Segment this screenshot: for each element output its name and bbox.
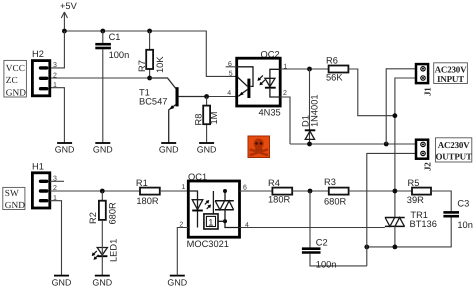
svg-text:R3: R3 <box>324 177 336 187</box>
H2 signal label box VCC/ZC/GND <box>4 60 27 98</box>
wire H1 pin1 to GND <box>50 201 62 276</box>
photo-triac inside OC1 <box>213 191 225 214</box>
svg-text:VCC: VCC <box>6 64 25 74</box>
svg-text:1N4001: 1N4001 <box>310 94 320 127</box>
wire R3 to R5 <box>349 190 412 192</box>
warning icon (high voltage skull) <box>248 136 270 158</box>
svg-text:6: 6 <box>243 184 247 191</box>
wire AC net to J2 pin1 <box>290 143 416 145</box>
LED inside OC1 <box>188 191 197 210</box>
resistor R2 <box>88 191 117 225</box>
capacitor C1 <box>95 31 129 143</box>
svg-text:GND: GND <box>52 277 72 287</box>
wire R5 to C3 <box>431 191 451 211</box>
AC230V INPUT label box <box>434 63 468 84</box>
svg-text:GND: GND <box>6 88 26 98</box>
node rail-R7 junction <box>147 29 152 34</box>
phototransistor inside OC2 <box>237 67 253 87</box>
resistor R8 <box>194 97 220 144</box>
svg-text:J2: J2 <box>423 162 433 171</box>
svg-text:100n: 100n <box>316 260 337 270</box>
svg-text:GND: GND <box>159 145 179 155</box>
wire H2 pin3 to +5V <box>51 31 64 68</box>
svg-text:6: 6 <box>228 61 232 68</box>
svg-text:GND: GND <box>167 277 187 287</box>
svg-text:MOC3021: MOC3021 <box>187 239 229 249</box>
svg-text:4N35: 4N35 <box>259 108 281 118</box>
LED inside OC2 <box>270 69 280 87</box>
node rail-H2 junction <box>62 29 67 34</box>
svg-text:39R: 39R <box>407 195 424 205</box>
svg-text:R7: R7 <box>137 60 147 72</box>
svg-text:5: 5 <box>229 70 233 77</box>
light bolt inside OC1 <box>205 201 210 209</box>
capacitor C3 <box>367 199 473 247</box>
svg-text:R6: R6 <box>326 56 338 66</box>
ground (T1 emitter) <box>159 143 179 155</box>
resistor R7 <box>137 31 165 78</box>
svg-text:C1: C1 <box>109 32 121 42</box>
LED LED1 <box>92 220 119 276</box>
node T1 collector junction <box>147 76 152 81</box>
ground (H1 pin1) <box>52 276 72 288</box>
svg-text:C2: C2 <box>316 238 328 248</box>
svg-text:680R: 680R <box>324 196 347 206</box>
wire R4 to R3 <box>292 190 329 192</box>
svg-text:10n: 10n <box>457 220 473 230</box>
AC230V OUTPUT label box <box>435 138 472 162</box>
resistor R6 <box>326 56 348 83</box>
svg-text:1M: 1M <box>209 112 219 125</box>
svg-text:GND: GND <box>197 145 217 155</box>
ground (C1) <box>93 143 113 155</box>
svg-text:1: 1 <box>53 82 57 89</box>
wire H1 pin2 to R1 <box>50 190 140 192</box>
node R2 top junction <box>100 189 105 194</box>
svg-text:1: 1 <box>182 184 186 191</box>
transistor T1 BC547 <box>139 78 207 143</box>
svg-text:ZC: ZC <box>6 76 18 86</box>
triac TR1 BT136 <box>385 210 437 247</box>
svg-text:R2: R2 <box>88 212 98 224</box>
wire H2 pin1 to GND <box>51 88 64 143</box>
svg-text:2: 2 <box>53 72 57 79</box>
svg-text:10K: 10K <box>155 56 165 73</box>
node C2 top junction <box>308 189 313 194</box>
light arrows inside OC2 <box>259 75 265 83</box>
svg-text:2: 2 <box>283 90 287 97</box>
pin 6 stub (base, n.c.) <box>226 66 237 68</box>
svg-text:R1: R1 <box>136 178 148 188</box>
optocoupler OC1 MOC3021 <box>179 172 249 249</box>
svg-text:BT136: BT136 <box>410 219 437 229</box>
resistor R5 <box>407 178 431 205</box>
ground (H2 pin1) <box>55 143 75 155</box>
svg-text:BC547: BC547 <box>139 97 167 107</box>
wire J1 pin1 drop <box>386 69 415 144</box>
ground (OC1 pin2) <box>167 276 187 288</box>
+5V supply symbol <box>60 1 78 31</box>
node D1 cathode junction <box>307 142 312 147</box>
svg-text:3: 3 <box>53 62 57 69</box>
connector J1 <box>416 64 433 96</box>
connector H2 <box>32 49 57 96</box>
svg-text:SW: SW <box>5 189 19 199</box>
svg-text:180R: 180R <box>268 194 291 204</box>
svg-text:GND: GND <box>92 277 112 287</box>
gate element box "1" inside OC1 <box>204 214 218 229</box>
H1 signal label box SW/GND <box>3 187 25 210</box>
svg-text:GND: GND <box>5 201 25 211</box>
node R6 net / J1 pin2 junction <box>393 113 398 118</box>
wire +5V rail <box>64 31 236 76</box>
svg-text:OUTPUT: OUTPUT <box>435 152 472 162</box>
node R8 top junction <box>204 94 209 99</box>
diode D1 1N4001 <box>301 69 320 144</box>
wire ZC: H2 pin2 to T1 collector node <box>51 77 150 79</box>
svg-text:180R: 180R <box>136 196 159 206</box>
svg-text:4: 4 <box>227 90 231 97</box>
svg-text:R4: R4 <box>268 178 280 188</box>
wire J2 pin2 to snubber/C2 net <box>367 153 416 266</box>
svg-text:J1: J1 <box>423 87 433 96</box>
svg-text:1: 1 <box>208 217 213 227</box>
svg-text:+5V: +5V <box>60 1 78 11</box>
resistor R4 <box>268 178 292 204</box>
ground (R8) <box>197 143 217 155</box>
wire OC1 pin6 to R4 <box>240 190 273 192</box>
connector H1 <box>32 162 57 209</box>
node D1 anode junction <box>307 67 312 72</box>
svg-text:AC230V: AC230V <box>438 140 470 150</box>
svg-text:H2: H2 <box>32 49 44 59</box>
node TR1 MT2 junction <box>393 189 398 194</box>
wire H1 pin3 stub <box>50 180 64 182</box>
node J2 pin2 / C2 junction <box>364 245 369 250</box>
wire OC1 pin4 to TR1 gate <box>240 227 385 229</box>
svg-text:GND: GND <box>93 145 113 155</box>
svg-text:R8: R8 <box>194 114 204 126</box>
wire R6 to J1 pin2 net <box>348 69 395 116</box>
node TR1 MT1 junction <box>393 245 398 250</box>
wire OC2 pin1 to R6 <box>280 68 328 70</box>
node rail-C1 junction <box>100 29 105 34</box>
ground (LED1) <box>92 276 112 288</box>
connector J2 <box>416 140 433 171</box>
svg-text:100n: 100n <box>109 50 130 60</box>
capacitor C2 <box>302 191 367 270</box>
wire R1 to OC1 pin1 <box>160 190 189 192</box>
wire J1 pin2 drop <box>395 78 416 217</box>
resistor R1 <box>136 178 160 206</box>
svg-text:LED1: LED1 <box>109 239 119 262</box>
node J1 pin1 drop junction <box>384 142 389 147</box>
svg-text:C3: C3 <box>457 199 469 209</box>
wire OC1 pin2 to GND <box>177 228 188 276</box>
svg-text:H1: H1 <box>32 162 44 172</box>
wire T1 base to OC2 pin4 <box>207 96 237 98</box>
svg-text:56K: 56K <box>326 73 343 83</box>
resistor R3 <box>324 177 349 206</box>
svg-text:GND: GND <box>55 145 75 155</box>
wire OC2 pin2 down to AC net <box>280 97 290 144</box>
svg-text:680R: 680R <box>107 202 117 225</box>
svg-text:R5: R5 <box>408 178 420 188</box>
svg-text:INPUT: INPUT <box>437 74 464 84</box>
optocoupler OC2 4N35 <box>226 50 288 118</box>
